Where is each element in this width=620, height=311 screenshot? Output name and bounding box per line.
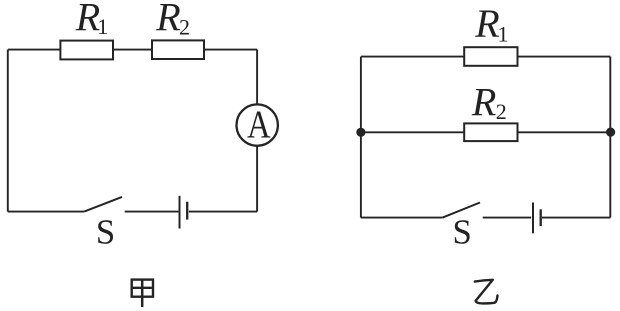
label R1 bbox=[474, 1, 508, 47]
wire left side vertical bbox=[7, 50, 9, 212]
switch S lever bbox=[84, 197, 122, 212]
wire battery to bottom-right corner bbox=[189, 211, 257, 213]
battery BT2 short plate bbox=[540, 209, 542, 226]
svg-text:A: A bbox=[247, 102, 271, 146]
label R2 bbox=[155, 0, 190, 40]
svg-text:R: R bbox=[474, 1, 499, 46]
wire top-left to R1 bbox=[8, 49, 61, 51]
wire right side vertical bbox=[609, 57, 611, 218]
node right junction bbox=[606, 128, 615, 137]
svg-text:R: R bbox=[155, 0, 180, 39]
label jia (CJK) bbox=[132, 280, 153, 307]
wire switch to battery bbox=[483, 217, 532, 219]
wire R2 to top-right corner bbox=[204, 49, 257, 51]
svg-text:S: S bbox=[96, 212, 115, 251]
resistor R1 bbox=[60, 41, 113, 60]
wire bottom-left to switch bbox=[361, 217, 443, 219]
wire middle branch left bbox=[361, 131, 464, 133]
wire between R1 and R2 bbox=[113, 49, 152, 51]
svg-text:1: 1 bbox=[498, 21, 509, 46]
label R2 bbox=[471, 80, 507, 125]
wire right side lower bbox=[256, 146, 258, 212]
wire R1 to top-right bbox=[518, 56, 611, 58]
battery BT1 long plate bbox=[179, 196, 181, 229]
wire battery to bottom-right bbox=[542, 217, 610, 219]
wire left side vertical bbox=[360, 57, 362, 218]
resistor R2 bbox=[464, 123, 517, 141]
svg-text:S: S bbox=[453, 213, 472, 252]
node left junction bbox=[356, 128, 365, 137]
wire switch to battery bbox=[125, 211, 179, 213]
label R1 bbox=[75, 0, 109, 39]
label S bbox=[96, 212, 115, 251]
svg-text:1: 1 bbox=[97, 14, 108, 39]
switch S lever bbox=[443, 203, 480, 218]
label yi (CJK) bbox=[475, 280, 498, 304]
wire right side upper bbox=[256, 50, 258, 105]
svg-text:2: 2 bbox=[496, 99, 507, 124]
ammeter A1 bbox=[237, 104, 278, 145]
wire middle branch right bbox=[518, 131, 611, 133]
battery BT2 long plate bbox=[532, 203, 534, 234]
resistor R1 bbox=[464, 47, 517, 66]
svg-text:R: R bbox=[471, 80, 496, 125]
resistor R2 bbox=[152, 40, 204, 59]
wire top-left to R1 bbox=[361, 56, 464, 58]
label S bbox=[453, 213, 472, 252]
battery BT1 short plate bbox=[186, 202, 188, 220]
wire bottom-left to switch bbox=[8, 211, 84, 213]
svg-text:2: 2 bbox=[179, 15, 190, 40]
